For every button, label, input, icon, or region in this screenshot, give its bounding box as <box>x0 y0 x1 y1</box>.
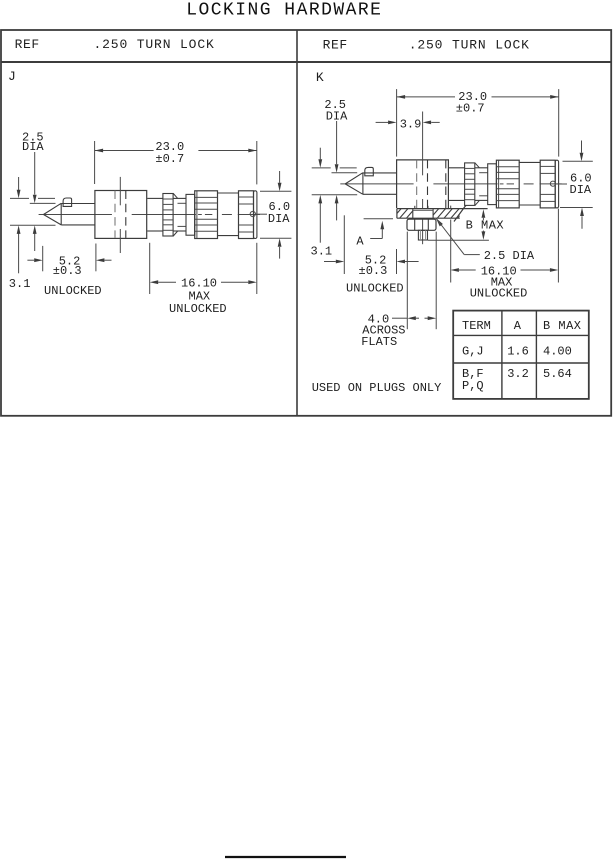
K vertical line through block nut and stud <box>422 112 424 176</box>
K extension lines left of pin <box>312 167 331 169</box>
J plain cylinder <box>218 192 239 194</box>
J knurled end ring <box>239 191 254 239</box>
K dim A arrow and leader <box>380 221 384 230</box>
K plain cylinder <box>519 161 540 163</box>
K block hidden line 1 <box>416 160 418 208</box>
K sub-table column line 1 <box>501 311 503 399</box>
J dim 16.10 dimension line with arrows <box>158 281 176 283</box>
svg-text:2.5 DIA: 2.5 DIA <box>484 249 535 263</box>
K dim 2.5 DIA leader with arrows <box>336 121 338 164</box>
K dim 4.0 leader and arrows <box>392 317 407 319</box>
K block hidden line 2 <box>427 160 429 208</box>
K dim 4.0 extension lines <box>406 232 408 330</box>
svg-text:16.10: 16.10 <box>181 276 217 290</box>
svg-text:DIA: DIA <box>22 140 44 154</box>
K end cap <box>555 160 558 208</box>
svg-text:FLATS: FLATS <box>361 335 397 349</box>
svg-text:3.1: 3.1 <box>9 277 31 291</box>
K dim 16.10 dimension line with arrows <box>459 269 476 271</box>
K mounting panel section left hatched <box>377 206 431 221</box>
J main block body <box>95 191 147 239</box>
main table center divider <box>296 30 298 416</box>
K sub-table row line 1 <box>453 334 589 336</box>
J neck groove <box>173 197 186 199</box>
K mounting panel outline <box>397 205 488 221</box>
svg-text:±0.7: ±0.7 <box>456 102 485 116</box>
svg-text:G,J: G,J <box>462 344 484 358</box>
svg-text:4.00: 4.00 <box>543 344 572 358</box>
svg-text:3.9: 3.9 <box>400 118 422 132</box>
K main block body <box>397 160 449 208</box>
svg-text:K: K <box>316 70 324 85</box>
J dim 23.0 extension lines <box>94 141 96 184</box>
svg-text:DIA: DIA <box>268 212 290 226</box>
K mounting panel section right hatched <box>428 206 489 221</box>
svg-text:B MAX: B MAX <box>466 219 505 233</box>
J dim 5.2 arrows <box>27 259 34 261</box>
svg-text:DIA: DIA <box>570 183 592 197</box>
K locking hook tab <box>365 167 374 175</box>
K ring 1 chamfer to neck <box>475 163 479 168</box>
svg-text:REF: REF <box>323 38 348 53</box>
K dim 6.0 DIA leader loop <box>550 181 555 186</box>
J dim 16.10 extension lines <box>149 243 151 294</box>
J dim 6.0 DIA extension lines <box>260 190 291 192</box>
svg-text:B MAX: B MAX <box>543 319 582 333</box>
K dim 3.9 arrows <box>376 121 389 123</box>
J dim 23.0 dimension line with arrows <box>95 150 154 152</box>
J centerline <box>39 214 112 216</box>
svg-text:REF: REF <box>15 37 40 52</box>
K dim A extension line <box>364 218 393 220</box>
J dim 5.2 extension lines <box>42 246 44 271</box>
K sub-table outer border <box>453 311 589 399</box>
K dim 6.0 DIA extension lines <box>563 160 593 162</box>
K block hidden line 3 near right face <box>445 160 447 209</box>
J middle shaft <box>147 197 163 199</box>
svg-text:UNLOCKED: UNLOCKED <box>346 282 404 296</box>
K leader 2.5 DIA <box>436 218 443 226</box>
K dim 5.2 arrows <box>324 261 336 263</box>
svg-text:A: A <box>356 235 364 249</box>
J extension lines left of pin <box>10 197 29 199</box>
J block hidden line 2 <box>125 191 127 238</box>
J locking hook tab <box>63 198 72 206</box>
J pin shaft <box>61 203 95 205</box>
svg-text:UNLOCKED: UNLOCKED <box>169 302 227 316</box>
svg-text:UNLOCKED: UNLOCKED <box>470 287 528 301</box>
svg-text:1.6: 1.6 <box>507 344 529 358</box>
main table header separator line <box>1 61 612 63</box>
J collar ring <box>186 194 195 235</box>
svg-text:UNLOCKED: UNLOCKED <box>44 284 102 298</box>
K dim 5.2 extension lines <box>343 215 345 274</box>
svg-text:.250 TURN LOCK: .250 TURN LOCK <box>409 38 530 53</box>
svg-text:±0.3: ±0.3 <box>53 264 82 278</box>
K neck groove <box>475 167 488 169</box>
svg-text:3.1: 3.1 <box>311 245 333 259</box>
K collar ring <box>488 164 497 205</box>
J knurled ring 1 <box>163 194 173 237</box>
J vertical feature line through block <box>119 177 121 205</box>
K dim 23.0 dimension line with arrows <box>397 96 455 98</box>
J pin point <box>44 203 62 225</box>
svg-text:J: J <box>8 69 16 84</box>
K pin point <box>345 173 363 195</box>
svg-text:P,Q: P,Q <box>462 379 484 393</box>
K pin shaft <box>363 172 397 174</box>
K knurled end ring <box>540 160 555 208</box>
svg-text:A: A <box>514 319 522 333</box>
K stud bottom extension line <box>428 239 489 241</box>
K dim 6.0 DIA arrows <box>581 141 583 153</box>
K sub-table column line 2 <box>535 311 537 399</box>
K dim 23.0 extension lines <box>396 89 398 157</box>
bottom page number line <box>225 856 346 858</box>
J end cap <box>254 191 257 239</box>
main table outer border <box>1 30 611 416</box>
K centerline <box>340 183 413 185</box>
svg-text:3.2: 3.2 <box>507 367 529 381</box>
J knurled drum <box>195 191 218 239</box>
K middle shaft <box>449 167 465 169</box>
J dim 2.5 DIA leader with arrows <box>34 152 36 195</box>
K threaded stud <box>418 230 427 240</box>
K knurled drum <box>496 160 519 208</box>
J block hidden line 1 <box>114 191 116 238</box>
svg-text:±0.3: ±0.3 <box>359 264 388 278</box>
J dim 6.0 DIA leader loop <box>250 211 255 216</box>
K lock washer in panel cutout <box>413 209 433 219</box>
K dim 3.1 leader with arrows <box>319 148 321 160</box>
K dim 16.10 extension lines <box>450 206 452 209</box>
J ring 1 chamfer to neck <box>173 194 177 199</box>
J dim 3.1 leader with arrows <box>18 177 20 190</box>
J dim 6.0 DIA arrows <box>279 171 281 183</box>
K dim B MAX arrows <box>482 218 484 221</box>
svg-text:5.64: 5.64 <box>543 367 572 381</box>
svg-text:USED ON PLUGS ONLY: USED ON PLUGS ONLY <box>312 381 442 395</box>
K sub-table row line 2 <box>453 362 589 364</box>
K hex nut <box>407 219 436 230</box>
svg-text:TERM: TERM <box>462 319 491 333</box>
svg-text:±0.7: ±0.7 <box>155 152 184 166</box>
K knurled ring 1 <box>465 163 475 206</box>
svg-text:LOCKING HARDWARE: LOCKING HARDWARE <box>186 1 382 21</box>
svg-text:.250 TURN LOCK: .250 TURN LOCK <box>94 37 215 52</box>
